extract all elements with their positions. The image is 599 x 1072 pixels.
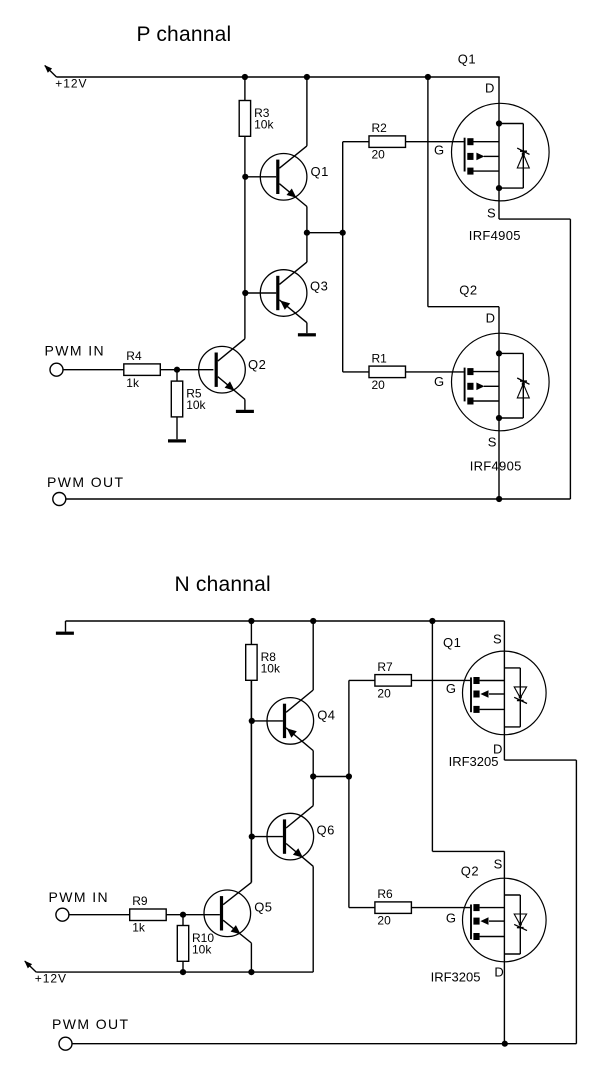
wire right bus N [575, 760, 577, 1044]
svg-text:+12V: +12V [55, 77, 87, 91]
wire Q1 collector up [306, 77, 308, 146]
wire R1 to gate [406, 371, 464, 373]
wire +12V top rail [57, 76, 500, 78]
resistor R1 [369, 366, 406, 378]
svg-text:20: 20 [377, 914, 391, 928]
wire Q6 base [251, 836, 283, 838]
wire R10 top [182, 915, 184, 926]
svg-text:IRF4905: IRF4905 [470, 459, 522, 474]
terminal PWM OUT N [59, 1037, 72, 1050]
mosfet Q2 IRF3205 [463, 878, 547, 962]
wire +12V rail N [36, 971, 313, 973]
wire R3 top [244, 77, 246, 101]
svg-text:D: D [485, 81, 494, 96]
svg-text:Q3: Q3 [310, 279, 328, 294]
wire Q5 collector up [250, 680, 252, 882]
wire Q5 emitter down [250, 943, 252, 972]
resistor R7 [375, 675, 412, 687]
wire R2 left [343, 141, 369, 143]
resistor R6 [375, 902, 412, 914]
wire PWM IN to R4 [63, 369, 124, 371]
wire Q1 source [498, 188, 500, 219]
svg-text:D: D [486, 310, 495, 325]
svg-text:R7: R7 [377, 660, 393, 674]
wire Q4 collector up [312, 621, 314, 690]
wire PWM OUT rail [66, 498, 571, 500]
svg-text:1k: 1k [126, 376, 140, 390]
ground N rail [56, 621, 74, 635]
node R9-R10 [180, 912, 186, 918]
wire Q1 emitter / Q3 collector bus [306, 207, 308, 263]
transistor Q3 [260, 262, 307, 323]
wire Q1 S corner [499, 218, 570, 220]
svg-text:+12V: +12V [35, 972, 67, 986]
svg-text:IRF4905: IRF4905 [469, 228, 521, 243]
svg-text:G: G [446, 910, 456, 925]
svg-text:Q2: Q2 [248, 357, 266, 372]
svg-text:10k: 10k [186, 398, 206, 412]
node Q3 base [242, 290, 248, 296]
svg-text:S: S [488, 435, 497, 450]
svg-text:PWM OUT: PWM OUT [47, 474, 124, 490]
svg-text:20: 20 [372, 148, 386, 162]
svg-text:S: S [493, 631, 502, 646]
svg-text:D: D [494, 965, 503, 980]
ground Q2 [236, 410, 254, 413]
wire right bus P [569, 219, 571, 499]
terminal PWM IN N [56, 908, 69, 921]
wire nQ2S bus right [432, 850, 504, 852]
R5 label [186, 386, 206, 412]
wire R3 bottom bus [244, 136, 246, 338]
R3 value label [254, 106, 274, 132]
mosfet Q1 IRF3205 [463, 651, 547, 735]
svg-text:N channal: N channal [175, 573, 271, 596]
svg-text:10k: 10k [192, 942, 212, 956]
wire R6 left [349, 907, 375, 909]
svg-text:IRF3205: IRF3205 [449, 754, 499, 769]
wire R2 left bus [342, 142, 344, 372]
svg-text:R6: R6 [377, 887, 393, 901]
wire R10 bottom [182, 961, 184, 972]
svg-text:Q6: Q6 [317, 823, 335, 838]
node rail-Q5E [248, 969, 254, 975]
resistor R9 [130, 909, 167, 921]
wire Q3 emitter down [306, 323, 308, 334]
svg-text:Q4: Q4 [317, 708, 335, 723]
wire R5 top [176, 370, 178, 381]
transistor Q4 [267, 690, 314, 751]
node out-Q2S [496, 496, 502, 502]
node rail-R3 [242, 74, 248, 80]
node rail-Q2S bus [429, 618, 435, 624]
wire Q6 emitter down [312, 866, 314, 972]
R10 label [192, 931, 214, 957]
mosfet Q2 IRF4905 [452, 333, 550, 431]
node rail-R8 [248, 618, 254, 624]
node mid-left [304, 230, 310, 236]
wire Q2 source [498, 418, 500, 499]
node Q1 base [242, 174, 248, 180]
terminal PWM OUT [53, 493, 66, 506]
wire R8 top [250, 621, 252, 645]
wire Q2 drain [498, 307, 500, 354]
svg-text:R4: R4 [126, 349, 142, 363]
svg-text:R2: R2 [372, 121, 388, 135]
wire mid link [307, 232, 343, 234]
node out-nQ2D [502, 1041, 508, 1047]
svg-text:Q2: Q2 [461, 864, 479, 879]
node Q6 base [249, 834, 255, 840]
wire R7 left [349, 679, 375, 681]
svg-text:S: S [487, 206, 496, 221]
svg-text:G: G [446, 681, 456, 696]
wire R1 left [343, 371, 369, 373]
transistor Q2 [199, 339, 246, 400]
wire Q2 emitter down [244, 399, 246, 410]
wire PWM OUT rail N [72, 1043, 576, 1045]
svg-text:G: G [434, 374, 444, 389]
wire R7R6 bus [348, 680, 350, 907]
wire R6 to gate [411, 907, 470, 909]
node rail-R10 [180, 969, 186, 975]
wire R5 bottom [176, 417, 178, 439]
svg-text:Q5: Q5 [254, 900, 272, 915]
node nmid-right [346, 773, 352, 779]
ground Q3 [298, 333, 316, 336]
svg-text:R9: R9 [132, 894, 148, 908]
node rail-Q4 collector [310, 618, 316, 624]
wire nmid link [313, 776, 349, 778]
wire Q1 drain [498, 77, 500, 124]
wire Q4 base [251, 720, 283, 722]
transistor Q5 [204, 882, 251, 943]
wire nQ2S bus down [431, 621, 433, 851]
resistor R4 [124, 364, 161, 376]
wire R7 to gate [411, 679, 470, 681]
+12V arrow N [24, 961, 36, 973]
svg-text:PWM IN: PWM IN [45, 343, 106, 359]
svg-text:Q1: Q1 [443, 635, 461, 650]
terminal PWM IN [50, 363, 63, 376]
node R4-R5 [174, 367, 180, 373]
svg-text:1k: 1k [132, 921, 146, 935]
svg-text:Q1: Q1 [311, 164, 329, 179]
svg-text:IRF3205: IRF3205 [431, 970, 481, 985]
wire Q2D bus right [428, 306, 499, 308]
wire nQ1 main vertical [503, 621, 505, 760]
node mid-right [340, 230, 346, 236]
+12V supply arrow [44, 65, 56, 77]
wire N top rail [66, 620, 505, 622]
resistor R5 [171, 381, 182, 417]
svg-text:10k: 10k [261, 661, 281, 675]
mosfet Q1 IRF4905 [452, 103, 550, 201]
wire R2 to gate [406, 141, 464, 143]
wire R9 to Q5 base [166, 914, 220, 916]
resistor R2 [369, 136, 406, 148]
svg-text:R1: R1 [372, 351, 388, 365]
wire R4 to Q2 base [160, 369, 213, 371]
svg-text:PWM IN: PWM IN [49, 889, 110, 905]
svg-text:S: S [494, 857, 503, 872]
svg-text:G: G [434, 143, 444, 158]
wire Q2D bus down [427, 77, 429, 307]
svg-text:20: 20 [377, 686, 391, 700]
resistor R3 [239, 101, 250, 137]
wire nQ2 main vertical [503, 851, 505, 1043]
ground R5 [168, 439, 186, 442]
node nmid-left [310, 773, 316, 779]
wire Q6 collector up [312, 777, 314, 806]
R8 label [261, 650, 281, 676]
svg-text:P channal: P channal [137, 23, 232, 46]
transistor Q1 [260, 146, 307, 207]
svg-text:Q2: Q2 [459, 283, 477, 298]
resistor R10 [177, 926, 188, 962]
svg-text:PWM OUT: PWM OUT [52, 1016, 129, 1032]
resistor R8 [246, 645, 257, 681]
node Q4 base [249, 718, 255, 724]
transistor Q6 [267, 806, 314, 867]
wire PWM IN to R9 [69, 914, 130, 916]
wire Q3 base [245, 292, 276, 294]
node rail-Q2D bus [425, 74, 431, 80]
svg-text:20: 20 [372, 378, 386, 392]
wire nQ1 drain corner [504, 759, 576, 761]
wire Q1 base [245, 176, 276, 178]
svg-text:10k: 10k [254, 117, 274, 131]
node rail-Q1 collector [304, 74, 310, 80]
wire R8 bottom bus [250, 680, 252, 882]
wire Q4 emitter down [312, 751, 314, 777]
svg-text:Q1: Q1 [458, 52, 476, 67]
